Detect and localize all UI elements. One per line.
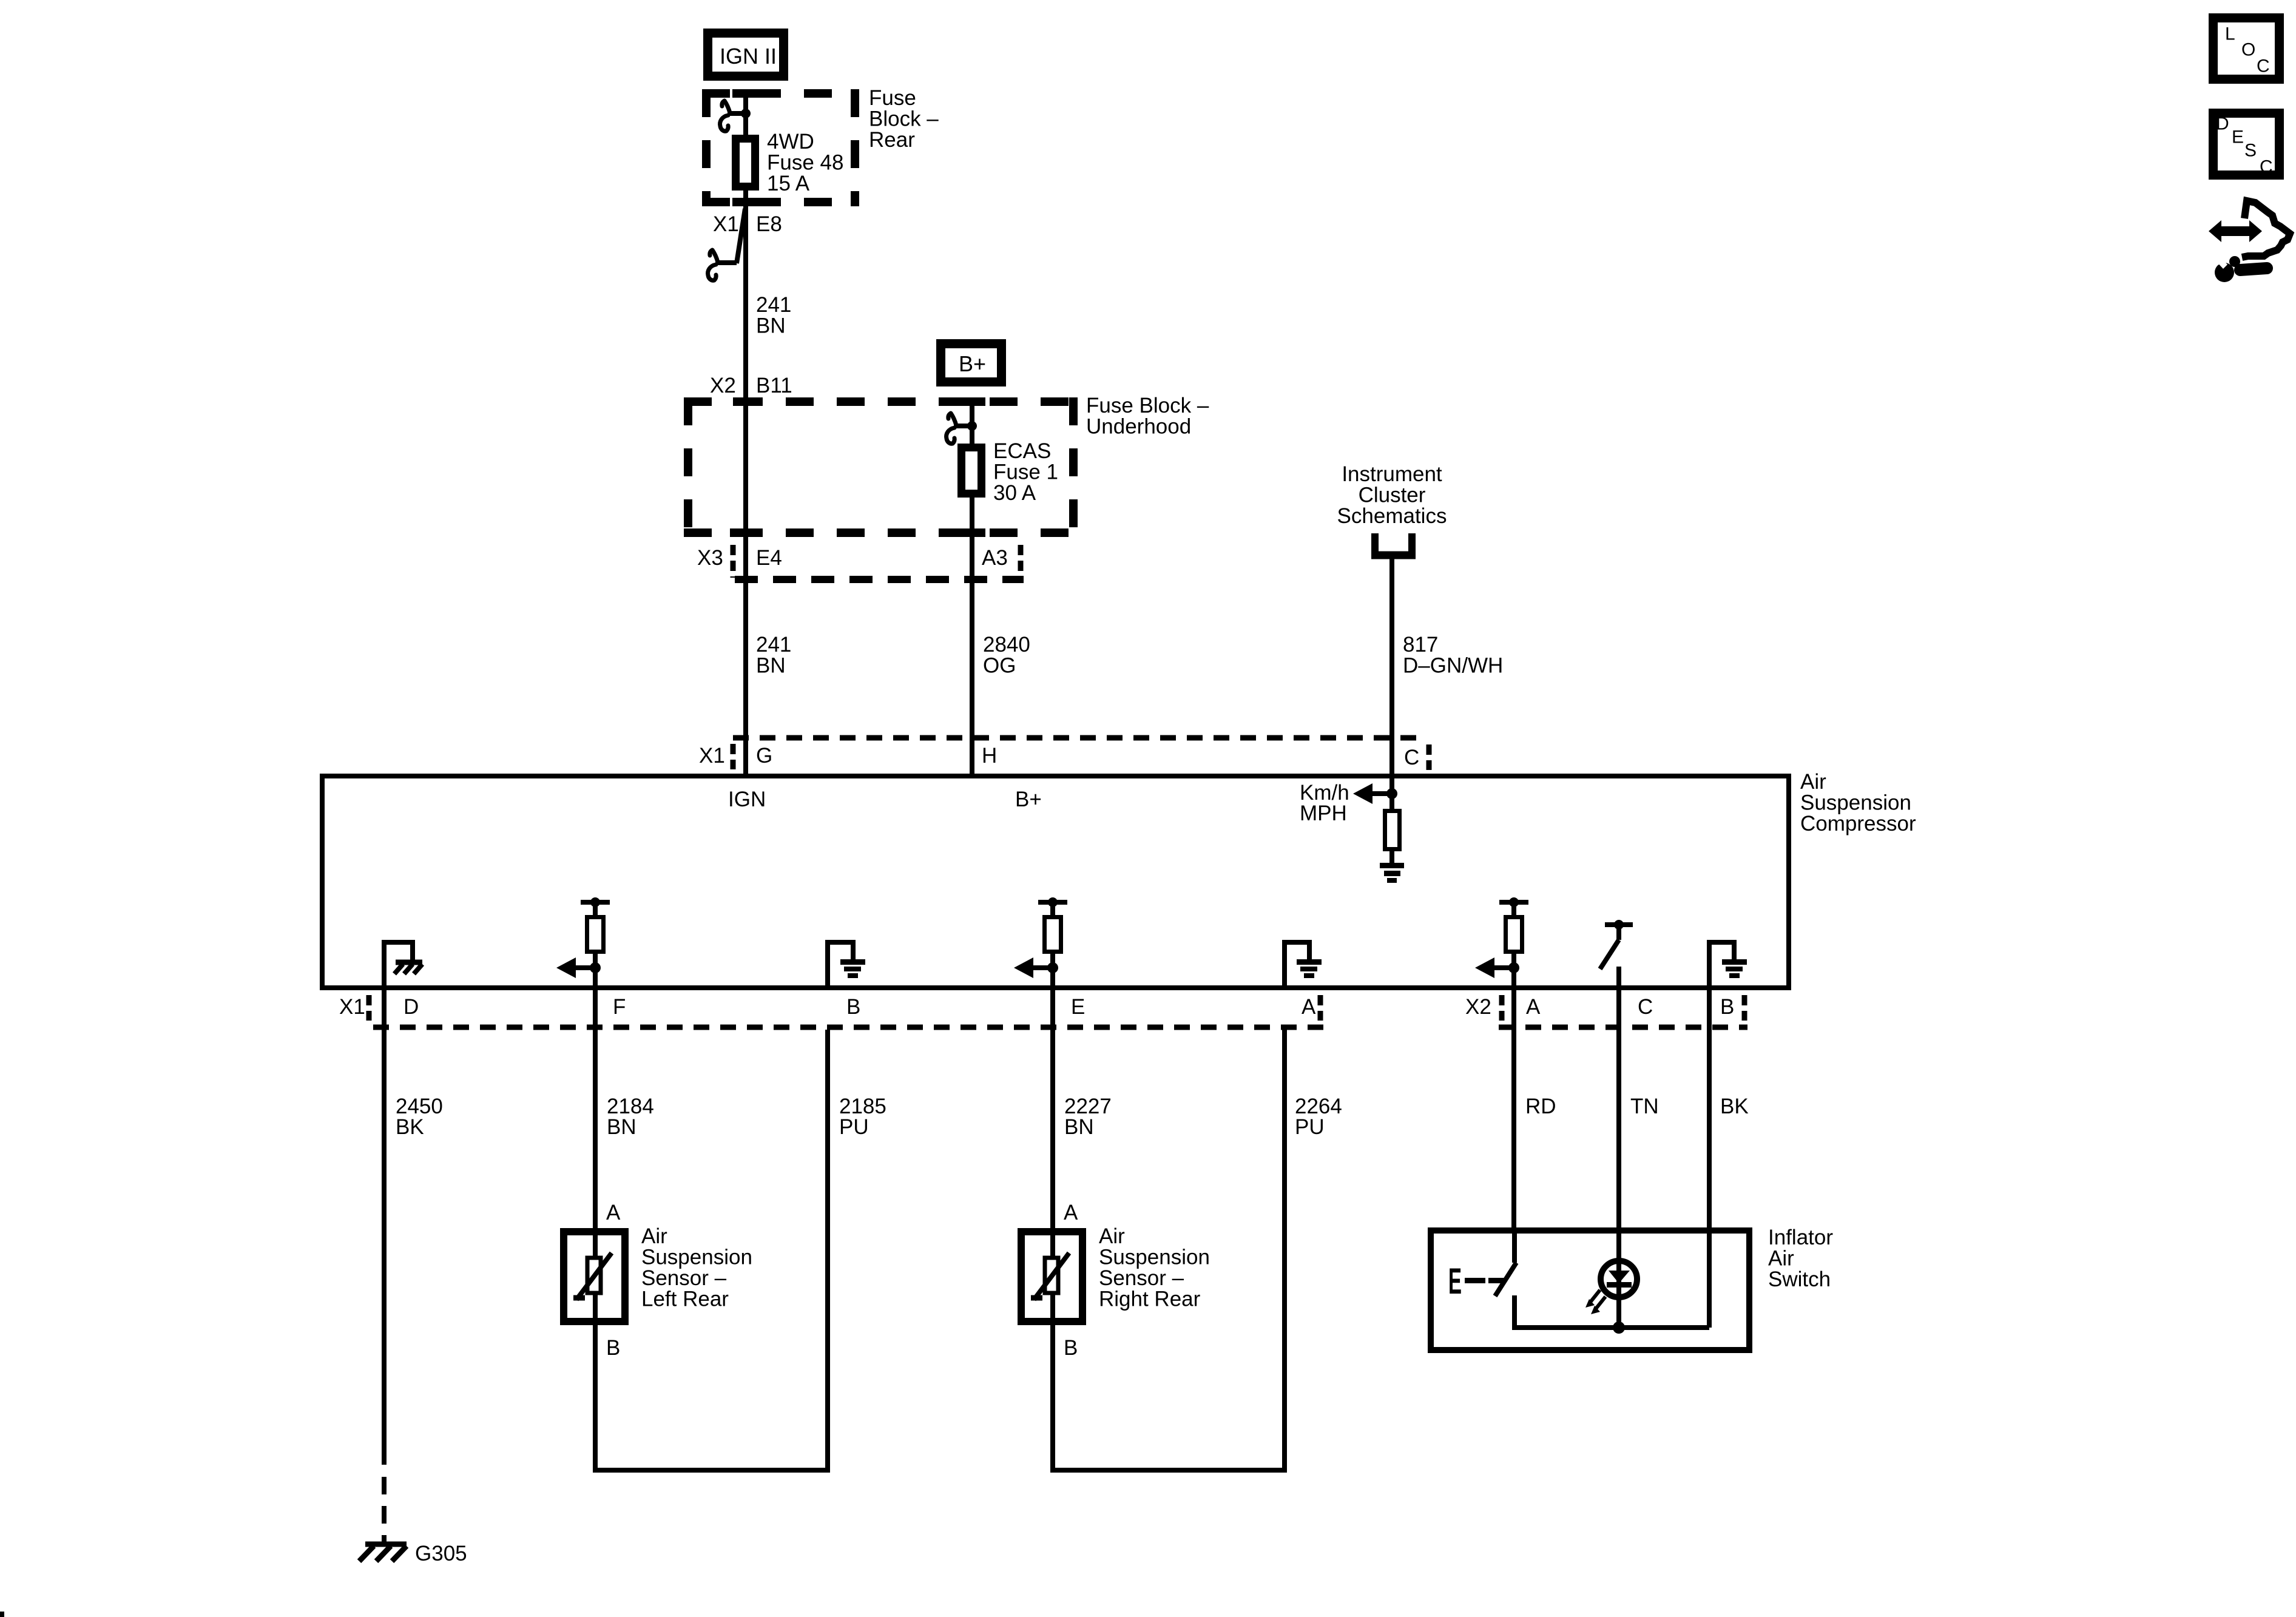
svg-text:G305: G305 <box>415 1542 467 1565</box>
svg-text:B: B <box>846 995 860 1019</box>
fuse 48 (4WD 15 A) <box>736 130 844 195</box>
wire label 241 BN (lower) <box>756 633 791 678</box>
label Fuse Block - Rear <box>869 86 939 152</box>
svg-text:E: E <box>1448 1261 1462 1302</box>
wire 2184 BN <box>595 990 654 1232</box>
fuse block underhood dashed box <box>684 397 1082 537</box>
svg-text:817: 817 <box>1403 633 1438 657</box>
compressor bottom connector X1 row (pins D F B E A) <box>339 995 1326 1027</box>
wire 2185 PU with return loop <box>595 1030 886 1470</box>
svg-text:X1: X1 <box>699 744 725 768</box>
svg-text:Sensor –: Sensor – <box>1099 1266 1184 1290</box>
svg-text:BN: BN <box>1064 1115 1094 1139</box>
pin B internal ground <box>828 942 865 990</box>
wire label 817 D-GN/WH <box>1403 633 1503 678</box>
svg-text:Schematics: Schematics <box>1337 504 1447 528</box>
svg-text:BK: BK <box>396 1115 424 1139</box>
svg-text:Switch: Switch <box>1768 1268 1831 1291</box>
svg-text:IGN II: IGN II <box>720 44 777 69</box>
svg-text:Instrument: Instrument <box>1342 462 1442 486</box>
svg-text:Air: Air <box>1768 1247 1794 1271</box>
svg-text:B+: B+ <box>959 351 986 376</box>
svg-text:E8: E8 <box>756 212 782 236</box>
svg-text:Suspension: Suspension <box>1800 791 1911 815</box>
power feed box B+ <box>941 344 1002 382</box>
svg-text:Fuse Block –: Fuse Block – <box>1086 394 1209 417</box>
switch mechanism E with blade <box>1448 1230 1709 1334</box>
wire 2264 PU with return loop <box>1053 1030 1342 1470</box>
svg-text:D: D <box>403 995 419 1019</box>
svg-text:G: G <box>756 744 772 768</box>
svg-text:Suspension: Suspension <box>641 1246 752 1269</box>
svg-text:Block –: Block – <box>869 107 939 131</box>
label Instrument Cluster Schematics <box>1337 462 1447 528</box>
air suspension sensor - left rear <box>564 1201 752 1360</box>
svg-text:A3: A3 <box>982 546 1008 570</box>
connector X1 / E8 <box>708 209 782 280</box>
pin E internal resistor with arrow <box>1014 897 1067 990</box>
svg-text:B: B <box>1720 995 1734 1019</box>
wire 241 BN from fuse block rear down to compressor pin G <box>743 90 748 774</box>
wire label 2840 OG <box>983 633 1030 678</box>
svg-text:OG: OG <box>983 654 1016 678</box>
indicator LED <box>1585 1261 1637 1314</box>
connector X2 / B11 <box>710 374 792 397</box>
svg-text:X2: X2 <box>710 374 736 397</box>
svg-text:B: B <box>1064 1336 1078 1360</box>
svg-text:B11: B11 <box>756 374 792 397</box>
svg-text:X2: X2 <box>1465 995 1491 1019</box>
wire RD <box>1514 990 1556 1230</box>
svg-text:F: F <box>613 995 626 1019</box>
power feed box IGN II <box>708 33 784 76</box>
svg-text:C: C <box>2257 56 2270 76</box>
air suspension compressor box <box>322 776 1789 988</box>
connector X3 / E4 / A3 row <box>697 545 1024 579</box>
fuse block rear dashed box <box>702 89 859 206</box>
svg-text:A: A <box>1302 995 1316 1019</box>
svg-text:D–GN/WH: D–GN/WH <box>1403 654 1503 678</box>
svg-text:RD: RD <box>1525 1095 1556 1118</box>
svg-text:BN: BN <box>756 654 786 678</box>
DESC legend box <box>2213 113 2280 177</box>
svg-text:S: S <box>2244 141 2257 161</box>
svg-text:IGN: IGN <box>728 788 766 811</box>
svg-text:B: B <box>606 1336 620 1360</box>
svg-text:Air: Air <box>1800 770 1826 794</box>
svg-text:PU: PU <box>839 1115 869 1139</box>
svg-text:30 A: 30 A <box>993 481 1036 505</box>
svg-text:15 A: 15 A <box>767 172 810 195</box>
svg-text:B+: B+ <box>1015 788 1042 811</box>
svg-text:MPH: MPH <box>1300 802 1347 825</box>
svg-text:Compressor: Compressor <box>1800 812 1916 836</box>
svg-text:Fuse 48: Fuse 48 <box>767 151 843 175</box>
svg-text:Air: Air <box>641 1224 667 1248</box>
label Fuse Block - Underhood <box>1086 394 1209 439</box>
svg-text:C: C <box>2260 157 2273 177</box>
svg-text:X1: X1 <box>713 212 739 236</box>
svg-text:Rear: Rear <box>869 128 915 152</box>
svg-text:H: H <box>982 744 997 768</box>
svg-text:L: L <box>2225 24 2235 44</box>
svg-text:Fuse 1: Fuse 1 <box>993 461 1058 484</box>
svg-text:2840: 2840 <box>983 633 1030 657</box>
ground G305 <box>359 1542 467 1565</box>
svg-text:Sensor –: Sensor – <box>641 1266 727 1290</box>
wire 2450 BK <box>384 990 443 1544</box>
LOC legend box <box>2213 18 2280 79</box>
compressor top connector X1 row (pins G H C) <box>699 738 1429 770</box>
svg-text:Inflator: Inflator <box>1768 1226 1833 1249</box>
terminal hooks at ECAS fuse <box>947 413 977 444</box>
svg-text:TN: TN <box>1630 1095 1659 1118</box>
label Air Suspension Compressor <box>1800 770 1916 836</box>
svg-text:A: A <box>1064 1201 1078 1224</box>
svg-text:X1: X1 <box>339 995 365 1019</box>
Km/h MPH speed signal arrow, resistor and ground inside compressor <box>1300 774 1404 883</box>
svg-text:D: D <box>2216 114 2229 134</box>
wire TN <box>1619 990 1659 1328</box>
svg-text:241: 241 <box>756 293 791 317</box>
svg-text:A: A <box>1526 995 1541 1019</box>
pin A internal ground <box>1285 942 1322 990</box>
svg-text:BK: BK <box>1720 1095 1749 1118</box>
wire label 241 BN (upper) <box>756 293 791 338</box>
svg-text:BN: BN <box>607 1115 636 1139</box>
svg-text:X3: X3 <box>697 546 723 570</box>
wire BK <box>1709 990 1749 1328</box>
pin B (X2) internal ground <box>1709 942 1747 990</box>
inflator air switch box <box>1431 1226 1833 1350</box>
off-sheet bracket under Instrument Cluster <box>1371 533 1416 556</box>
wire 817 D-GN/WH down to compressor pin C <box>1389 555 1394 774</box>
svg-text:E: E <box>1071 995 1085 1019</box>
svg-text:241: 241 <box>756 633 791 657</box>
svg-text:C: C <box>1638 995 1653 1019</box>
wire 2227 BN <box>1053 990 1112 1232</box>
svg-text:4WD: 4WD <box>767 130 814 154</box>
service icon: double arrow, component outline, wrench <box>2209 201 2290 282</box>
pin A (X2) internal resistor with arrow <box>1475 897 1528 990</box>
svg-text:Fuse: Fuse <box>869 86 916 110</box>
svg-text:PU: PU <box>1295 1115 1325 1139</box>
svg-text:A: A <box>606 1201 621 1224</box>
svg-text:Right Rear: Right Rear <box>1099 1288 1201 1311</box>
svg-text:C: C <box>1404 746 1419 769</box>
svg-text:E: E <box>2232 127 2244 147</box>
svg-text:Underhood: Underhood <box>1086 415 1191 439</box>
svg-text:O: O <box>2241 40 2255 60</box>
fuse ECAS Fuse 1 30 A <box>962 439 1059 505</box>
svg-text:Cluster: Cluster <box>1359 484 1426 507</box>
svg-text:Left Rear: Left Rear <box>641 1288 729 1311</box>
svg-text:BN: BN <box>756 314 786 338</box>
svg-text:Suspension: Suspension <box>1099 1246 1210 1269</box>
pin C (X2) internal switch <box>1600 920 1633 990</box>
svg-text:Air: Air <box>1099 1224 1125 1248</box>
page artifact dot <box>0 1612 4 1617</box>
svg-text:ECAS: ECAS <box>993 439 1051 463</box>
compressor bottom connector X2 row (pins A C B) <box>1465 995 1747 1027</box>
wire 2840 OG from B+ down to compressor pin H <box>970 397 974 774</box>
pin D internal chassis ground <box>384 942 422 990</box>
air suspension sensor - right rear <box>1021 1201 1210 1360</box>
pin F internal resistor with arrow <box>556 897 610 990</box>
terminal hooks inside fuse block rear <box>720 101 751 131</box>
svg-text:E4: E4 <box>756 546 782 570</box>
